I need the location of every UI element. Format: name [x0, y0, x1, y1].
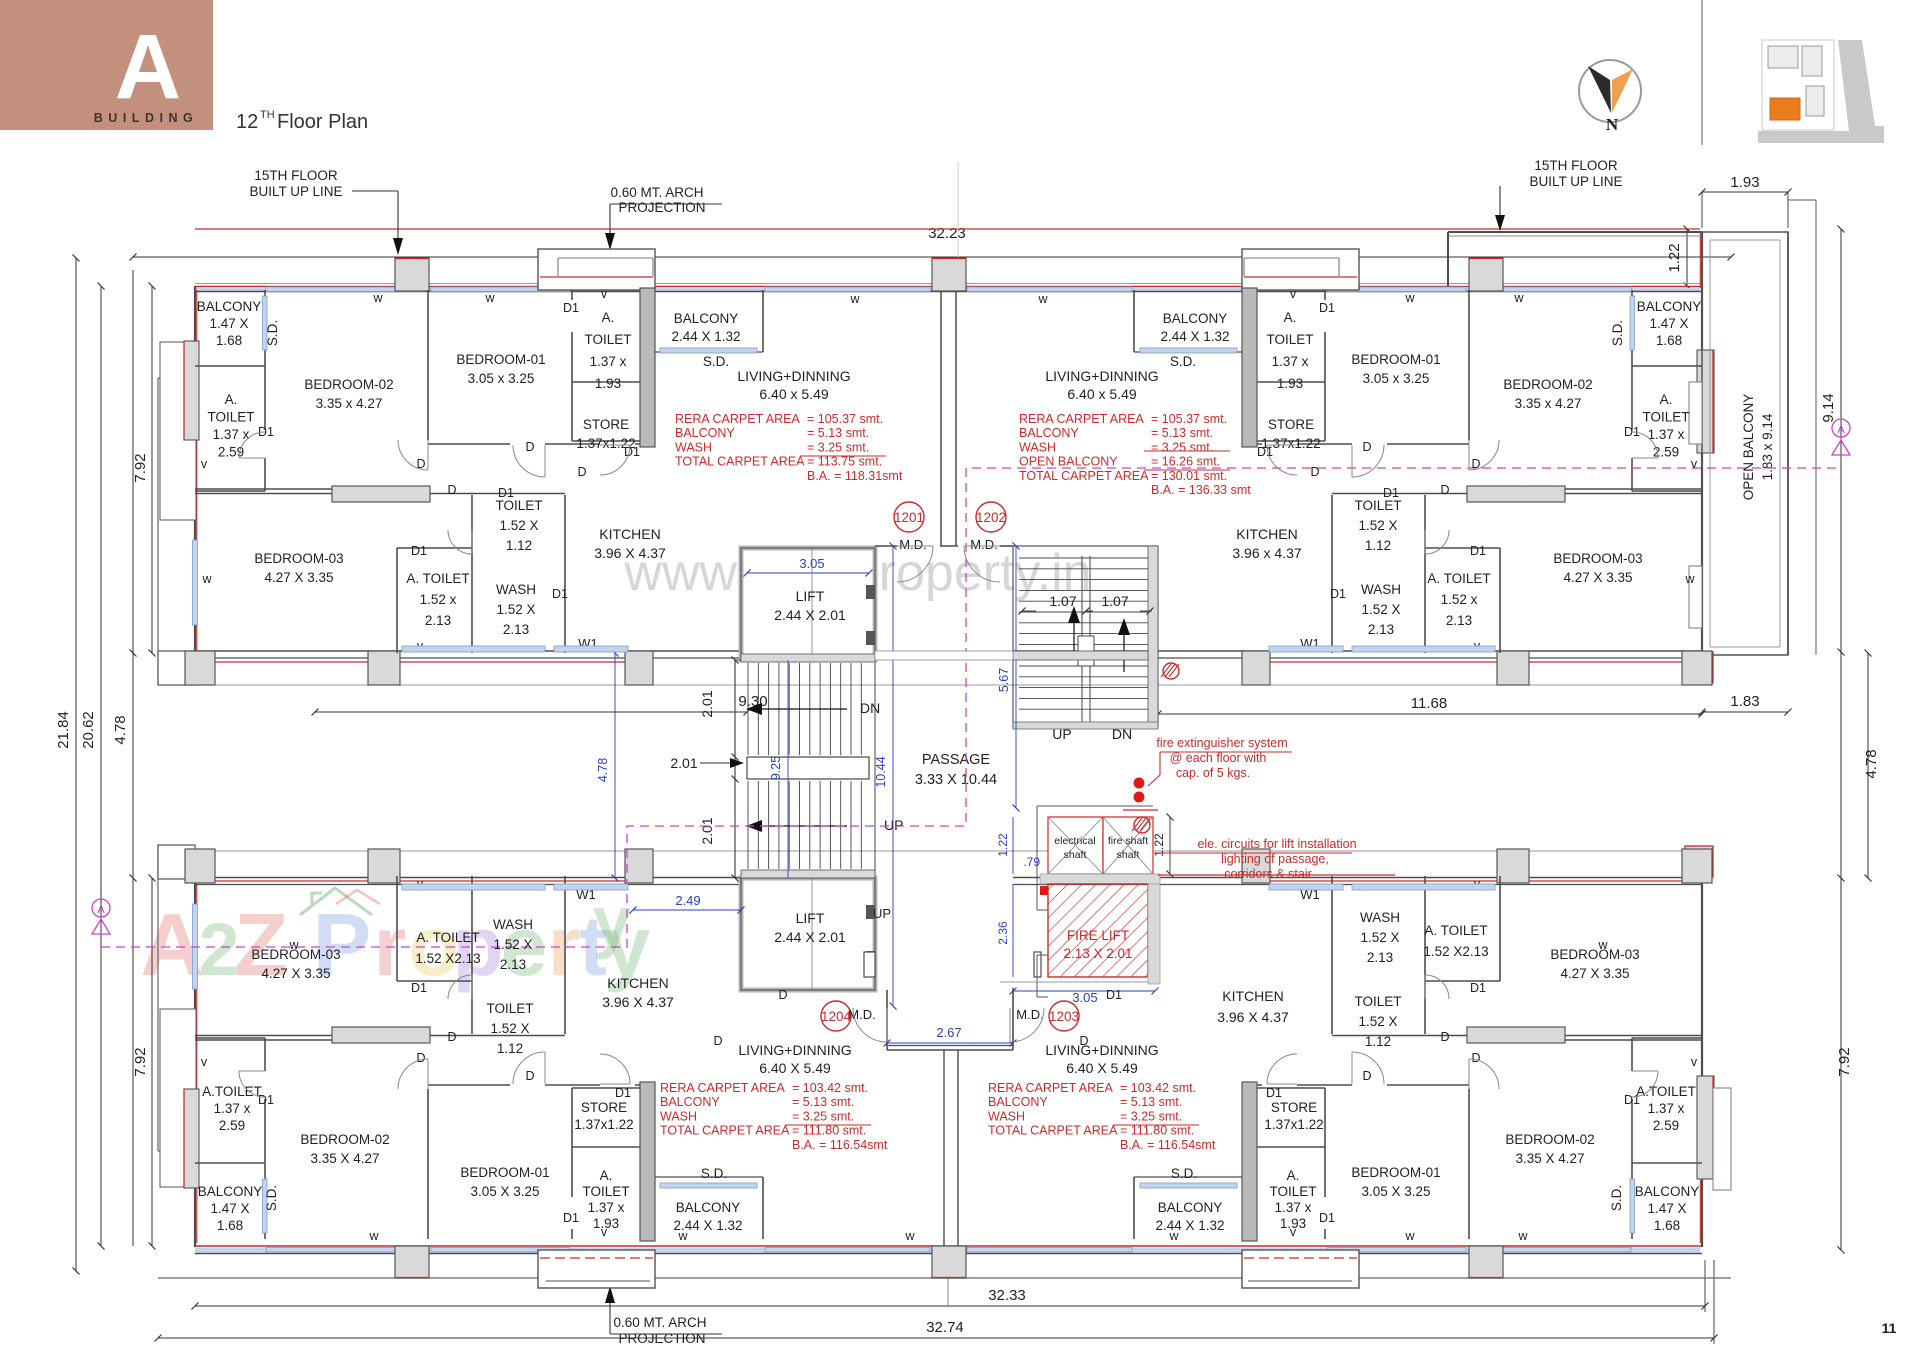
svg-text:WASH: WASH	[988, 1109, 1025, 1123]
open balcony corner column	[1685, 652, 1713, 683]
upper wing bottom wall	[195, 650, 875, 652]
svg-text:BEDROOM-01: BEDROOM-01	[1351, 352, 1440, 367]
wing window strips W1	[402, 646, 545, 652]
svg-text:1.12: 1.12	[506, 538, 532, 553]
svg-text:D1: D1	[552, 587, 568, 601]
svg-text:KITCHEN: KITCHEN	[607, 975, 668, 991]
svg-text:1.37x1.22: 1.37x1.22	[1264, 1117, 1323, 1132]
north compass	[1579, 60, 1641, 122]
passage landing strip upper	[1013, 651, 1148, 660]
svg-text:w: w	[677, 1229, 688, 1243]
svg-text:r: r	[374, 899, 407, 993]
svg-text:3.35 X 4.27: 3.35 X 4.27	[1515, 1151, 1584, 1166]
door arc a-toilet left	[239, 432, 265, 458]
svg-text:3.05: 3.05	[1072, 990, 1097, 1005]
svg-text:ele. circuits for lift install: ele. circuits for lift installation	[1197, 837, 1356, 851]
dim left 7.92 lower	[151, 878, 153, 1246]
svg-text:D: D	[1471, 1051, 1480, 1065]
blue dim 3.05 upper lift	[747, 572, 869, 574]
columns top wall	[395, 258, 429, 291]
svg-text:9.25: 9.25	[769, 756, 783, 780]
svg-text:TOTAL CARPET AREA: TOTAL CARPET AREA	[675, 455, 805, 469]
svg-text:BEDROOM-02: BEDROOM-02	[1503, 377, 1592, 392]
right stair bottom band	[1013, 722, 1158, 729]
svg-text:6.40 x 5.49: 6.40 x 5.49	[759, 386, 828, 402]
svg-text:32.23: 32.23	[928, 225, 966, 242]
party wall between units vertical	[940, 291, 942, 546]
svg-text:7.92: 7.92	[1836, 1047, 1853, 1076]
svg-text:A.TOILET: A.TOILET	[1636, 1084, 1696, 1099]
svg-text:BALCONY: BALCONY	[1158, 1200, 1223, 1215]
svg-text:TH: TH	[260, 109, 275, 121]
svg-text:2.59: 2.59	[219, 1118, 245, 1133]
svg-text:1.37 x: 1.37 x	[214, 1101, 251, 1116]
open balcony right strip	[1702, 232, 1788, 655]
dim left 7.92 upper	[151, 286, 153, 653]
svg-text:= 103.42 smt.: = 103.42 smt.	[792, 1081, 868, 1095]
svg-text:OPEN BALCONY: OPEN BALCONY	[1741, 394, 1756, 501]
svg-text:TOTAL CARPET AREA: TOTAL CARPET AREA	[1019, 469, 1149, 483]
svg-text:BALCONY: BALCONY	[660, 1095, 720, 1109]
svg-text:3.33 X 10.44: 3.33 X 10.44	[915, 772, 997, 788]
svg-text:4.27 X 3.35: 4.27 X 3.35	[261, 966, 330, 981]
svg-text:S.D.: S.D.	[1610, 320, 1625, 346]
top wall windows	[266, 287, 425, 292]
fire extinguisher dots	[1134, 778, 1145, 789]
svg-text:21.84: 21.84	[55, 711, 72, 749]
svg-text:20.62: 20.62	[80, 711, 97, 749]
svg-text:BALCONY: BALCONY	[674, 311, 739, 326]
svg-text:= 5.13 smt.: = 5.13 smt.	[792, 1095, 854, 1109]
shaft bottom gray band	[1040, 874, 1160, 884]
svg-text:12: 12	[236, 111, 258, 133]
svg-text:S.D.: S.D.	[1170, 354, 1196, 369]
dim 11.68	[1158, 713, 1702, 715]
svg-text:= 3.25 smt.: = 3.25 smt.	[807, 440, 869, 454]
svg-text:3.35 x 4.27: 3.35 x 4.27	[1515, 396, 1582, 411]
svg-text:1.52 X: 1.52 X	[490, 1021, 529, 1036]
svg-text:v: v	[1290, 1225, 1297, 1239]
svg-text:.79: .79	[1023, 855, 1040, 869]
svg-text:32.33: 32.33	[988, 1287, 1026, 1304]
svg-text:4.78: 4.78	[596, 758, 610, 782]
svg-text:RERA CARPET AREA: RERA CARPET AREA	[988, 1081, 1113, 1095]
svg-text:D: D	[713, 1034, 722, 1048]
svg-text:= 5.13 smt.: = 5.13 smt.	[1120, 1095, 1182, 1109]
upper lift door stubs	[866, 585, 875, 599]
svg-text:fire shaft: fire shaft	[1108, 835, 1148, 847]
svg-text:BALCONY: BALCONY	[198, 1184, 263, 1199]
svg-text:D: D	[447, 1030, 456, 1044]
door arc MD unit bottom	[853, 1008, 887, 1042]
svg-text:D: D	[525, 440, 534, 454]
dim right 9.14	[1840, 229, 1842, 1250]
svg-text:1.52 X: 1.52 X	[1358, 518, 1397, 533]
svg-text:A.: A.	[225, 392, 238, 407]
svg-text:= 105.37 smt.: = 105.37 smt.	[807, 412, 883, 426]
svg-text:D: D	[1362, 1069, 1371, 1083]
svg-text:2.49: 2.49	[675, 893, 700, 908]
blue dim 2.36	[1012, 884, 1014, 977]
svg-text:STORE: STORE	[581, 1100, 627, 1115]
svg-text:D: D	[778, 988, 787, 1002]
svg-text:v: v	[1290, 287, 1297, 301]
svg-text:= 5.13 smt.: = 5.13 smt.	[807, 426, 869, 440]
svg-text:w: w	[1168, 1229, 1179, 1243]
svg-text:1.37 x: 1.37 x	[588, 1200, 625, 1215]
dim 9.30	[315, 711, 747, 713]
svg-text:v: v	[1691, 457, 1698, 471]
section marker A left	[92, 899, 110, 917]
svg-text:fire extinguisher system: fire extinguisher system	[1156, 736, 1287, 750]
right wall pilasters	[1689, 382, 1702, 444]
red mark left of fire lift	[1040, 886, 1048, 895]
svg-text:1.47 X: 1.47 X	[1647, 1201, 1686, 1216]
site location mini map	[1762, 40, 1834, 130]
shaft area outline	[1036, 806, 1038, 910]
svg-text:= 130.01 smt.: = 130.01 smt.	[1151, 469, 1227, 483]
svg-text:3.05 X 3.25: 3.05 X 3.25	[470, 1184, 539, 1199]
svg-text:3.96 X 4.37: 3.96 X 4.37	[594, 545, 666, 561]
arch projection bottom right	[1242, 1250, 1359, 1288]
svg-text:4.78: 4.78	[112, 715, 129, 744]
svg-text:1.52 X: 1.52 X	[1358, 1014, 1397, 1029]
svg-text:WASH: WASH	[1361, 582, 1401, 597]
svg-text:shaft: shaft	[1064, 849, 1087, 861]
svg-text:@ each floor with: @ each floor with	[1170, 751, 1267, 765]
svg-text:1.37 x: 1.37 x	[1275, 1200, 1312, 1215]
svg-text:2.44 X 2.01: 2.44 X 2.01	[774, 929, 846, 945]
svg-text:D1: D1	[1383, 486, 1399, 500]
stair left treads lower flight	[747, 781, 749, 869]
svg-text:D1: D1	[1319, 301, 1335, 315]
svg-text:1.68: 1.68	[217, 1218, 243, 1233]
left outer wall	[194, 286, 196, 653]
svg-text:1.12: 1.12	[1365, 1034, 1391, 1049]
svg-text:w: w	[1684, 572, 1695, 586]
svg-text:RERA CARPET AREA: RERA CARPET AREA	[660, 1081, 785, 1095]
blue dim 10.44	[892, 546, 894, 1006]
svg-text:1.37 x: 1.37 x	[1272, 354, 1309, 369]
svg-text:D: D	[416, 1051, 425, 1065]
svg-text:PROJECTION: PROJECTION	[618, 1331, 705, 1346]
door arc store	[600, 445, 630, 475]
watermark house icon	[300, 888, 372, 915]
svg-text:TOILET: TOILET	[486, 1001, 533, 1016]
svg-text:11: 11	[1882, 1320, 1897, 1336]
red wall line right of fire area	[1158, 874, 1395, 876]
svg-text:D: D	[525, 1069, 534, 1083]
svg-text:WASH: WASH	[660, 1109, 697, 1123]
svg-text:1.47 X: 1.47 X	[1649, 316, 1688, 331]
svg-text:TOILET: TOILET	[584, 332, 631, 347]
svg-text:4.78: 4.78	[1863, 749, 1880, 778]
arch projection bottom left	[538, 1250, 655, 1288]
svg-text:2.59: 2.59	[1653, 1118, 1679, 1133]
svg-text:BALCONY: BALCONY	[1637, 299, 1702, 314]
svg-text:A.: A.	[602, 310, 615, 325]
svg-text:1.68: 1.68	[1656, 333, 1682, 348]
svg-text:1.37 x: 1.37 x	[1648, 1101, 1685, 1116]
svg-text:2.13: 2.13	[500, 957, 526, 972]
svg-text:D1: D1	[615, 1086, 631, 1100]
bedroom-02/01 divider wall	[427, 290, 429, 440]
bedroom-01 dark slab	[640, 288, 655, 447]
right stair treads	[1019, 557, 1148, 559]
stair UP arrow	[758, 825, 847, 827]
svg-text:1.52 X: 1.52 X	[493, 937, 532, 952]
left outcrop outline upper	[157, 378, 159, 685]
svg-text:BALCONY: BALCONY	[1635, 1184, 1700, 1199]
svg-text:3.05 X 3.25: 3.05 X 3.25	[1361, 1184, 1430, 1199]
svg-text:DN: DN	[1112, 726, 1132, 742]
svg-text:1203: 1203	[1049, 1009, 1079, 1024]
bedroom-02 bottom slab	[332, 486, 430, 502]
svg-text:w: w	[484, 291, 495, 305]
svg-text:= 113.75 smt.: = 113.75 smt.	[807, 455, 882, 469]
svg-text:w: w	[288, 938, 299, 952]
svg-text:UP: UP	[884, 817, 903, 833]
svg-text:D1: D1	[411, 981, 427, 995]
right stair arrows up	[1073, 620, 1075, 660]
top outer wall band	[195, 283, 1702, 285]
svg-text:A.: A.	[1660, 392, 1673, 407]
svg-text:WASH: WASH	[496, 582, 536, 597]
svg-text:w: w	[368, 1229, 379, 1243]
svg-text:A. TOILET: A. TOILET	[416, 930, 479, 945]
svg-text:1.93: 1.93	[595, 376, 621, 391]
svg-text:D1: D1	[624, 445, 640, 459]
balcony SD window strips vertical	[263, 296, 268, 350]
svg-text:cap. of 5 kgs.: cap. of 5 kgs.	[1176, 766, 1250, 780]
svg-text:PASSAGE: PASSAGE	[922, 752, 991, 768]
svg-text:4.27 X 3.35: 4.27 X 3.35	[264, 570, 333, 585]
svg-text:11.68: 11.68	[1411, 695, 1447, 712]
svg-text:A: A	[115, 16, 181, 118]
svg-text:10.44: 10.44	[874, 756, 888, 787]
svg-text:WASH: WASH	[675, 440, 712, 454]
columns bottom wall	[395, 1246, 429, 1278]
svg-text:D1: D1	[1470, 981, 1486, 995]
svg-text:v: v	[601, 1225, 608, 1239]
svg-text:2.59: 2.59	[1653, 445, 1679, 460]
svg-text:3.35 x 4.27: 3.35 x 4.27	[316, 396, 383, 411]
svg-text:1.68: 1.68	[216, 333, 242, 348]
svg-text:Floor Plan: Floor Plan	[277, 111, 368, 133]
svg-text:1.12: 1.12	[497, 1041, 523, 1056]
svg-text:1.83: 1.83	[1730, 693, 1759, 710]
svg-text:D: D	[1362, 440, 1371, 454]
svg-text:0.60 MT. ARCH: 0.60 MT. ARCH	[610, 185, 703, 200]
unit 1204 circle	[821, 1001, 851, 1031]
svg-text:S.D.: S.D.	[1171, 1166, 1197, 1181]
svg-text:1202: 1202	[976, 510, 1006, 525]
magenta section line left	[101, 468, 1841, 947]
svg-text:A. TOILET: A. TOILET	[1424, 923, 1487, 938]
svg-text:BEDROOM-01: BEDROOM-01	[1351, 1165, 1440, 1180]
svg-text:1.22: 1.22	[1666, 243, 1683, 272]
svg-text:D: D	[1079, 1034, 1088, 1048]
svg-text:1.68: 1.68	[1654, 1218, 1680, 1233]
svg-text:32.74: 32.74	[926, 1319, 964, 1336]
svg-text:= 105.37 smt.: = 105.37 smt.	[1151, 412, 1227, 426]
bottom outer wall band	[195, 1245, 1702, 1247]
header divider	[1701, 0, 1703, 145]
svg-text:1.52 X: 1.52 X	[1361, 602, 1400, 617]
svg-text:w: w	[1404, 1229, 1415, 1243]
svg-text:M.D.: M.D.	[970, 537, 997, 552]
svg-text:2.44 X 1.32: 2.44 X 1.32	[1155, 1218, 1224, 1233]
svg-text:D: D	[1440, 1030, 1449, 1044]
svg-text:1.37 x: 1.37 x	[213, 427, 250, 442]
svg-text:D1: D1	[1266, 1086, 1282, 1100]
svg-text:TOILET: TOILET	[1269, 1184, 1316, 1199]
svg-text:WASH: WASH	[1360, 910, 1400, 925]
svg-text:S.D.: S.D.	[1609, 1185, 1624, 1211]
svg-text:2.13: 2.13	[425, 613, 451, 628]
svg-text:15TH FLOOR: 15TH FLOOR	[1534, 158, 1618, 173]
right wall duct slab lower	[1697, 1076, 1714, 1179]
svg-text:1.37 x: 1.37 x	[1648, 427, 1685, 442]
unit 1201 circle	[894, 502, 924, 532]
dim right 1.22	[1686, 229, 1688, 286]
svg-text:D1: D1	[498, 486, 514, 500]
dim left 20.62	[100, 286, 102, 1246]
svg-text:BEDROOM-02: BEDROOM-02	[1505, 1132, 1594, 1147]
svg-text:= 3.25 smt.: = 3.25 smt.	[1120, 1109, 1182, 1123]
electrical shaft	[1048, 817, 1103, 874]
dim left 21.84	[75, 258, 77, 1271]
svg-text:2.01: 2.01	[699, 690, 715, 717]
svg-text:A.: A.	[1284, 310, 1297, 325]
svg-text:A.: A.	[1287, 1168, 1300, 1183]
svg-text:7.92: 7.92	[132, 453, 149, 482]
svg-text:2.44 X 1.32: 2.44 X 1.32	[671, 329, 740, 344]
svg-text:BALCONY: BALCONY	[197, 299, 262, 314]
right stair block	[1013, 546, 1158, 728]
bedroom-01 bottom wall	[428, 443, 510, 445]
svg-text:v: v	[1691, 1055, 1698, 1069]
svg-text:D1: D1	[411, 544, 427, 558]
dim bottom 32.33	[195, 1305, 1705, 1307]
svg-text:2.59: 2.59	[218, 445, 244, 460]
svg-text:BEDROOM-03: BEDROOM-03	[1553, 551, 1642, 566]
svg-text:6.40 x 5.49: 6.40 x 5.49	[1067, 386, 1136, 402]
door arc bedroom-02	[398, 440, 428, 470]
svg-text:3.96 X 4.37: 3.96 X 4.37	[1217, 1009, 1289, 1025]
svg-text:2.01: 2.01	[670, 755, 697, 771]
svg-text:2.44 X 2.01: 2.44 X 2.01	[774, 607, 846, 623]
svg-text:4.27 X 3.35: 4.27 X 3.35	[1560, 966, 1629, 981]
svg-text:D1: D1	[1106, 988, 1122, 1002]
svg-text:15TH FLOOR: 15TH FLOOR	[254, 168, 338, 183]
svg-text:KITCHEN: KITCHEN	[599, 526, 660, 542]
svg-text:TOILET: TOILET	[1266, 332, 1313, 347]
svg-text:RERA CARPET AREA: RERA CARPET AREA	[1019, 412, 1144, 426]
svg-text:B.A. = 116.54smt: B.A. = 116.54smt	[1120, 1138, 1216, 1152]
svg-text:w: w	[201, 572, 212, 586]
svg-text:w: w	[372, 291, 383, 305]
svg-text:STORE: STORE	[583, 417, 629, 432]
svg-text:BALCONY: BALCONY	[676, 1200, 741, 1215]
svg-text:UP: UP	[873, 906, 891, 921]
svg-text:D: D	[577, 465, 586, 479]
svg-text:1.52 x: 1.52 x	[420, 592, 457, 607]
right outer wall	[1701, 232, 1703, 655]
svg-text:1.12: 1.12	[1365, 538, 1391, 553]
svg-text:A.: A.	[600, 1168, 613, 1183]
svg-text:2.67: 2.67	[936, 1025, 961, 1040]
svg-text:D1: D1	[1319, 1211, 1335, 1225]
svg-text:= 111.80 smt.: = 111.80 smt.	[1120, 1124, 1194, 1138]
svg-text:WASH: WASH	[493, 917, 533, 932]
svg-text:LIFT: LIFT	[796, 588, 825, 604]
right stair rail	[1081, 556, 1083, 726]
center guide line bottom	[947, 1278, 949, 1306]
svg-text:2.13: 2.13	[503, 622, 529, 637]
left wall window bedroom03	[193, 540, 198, 625]
svg-text:1.37x1.22: 1.37x1.22	[574, 1117, 633, 1132]
svg-text:w: w	[849, 292, 860, 306]
svg-text:4.27 X 3.35: 4.27 X 3.35	[1563, 570, 1632, 585]
arch projection top right	[1242, 249, 1359, 290]
unit 1203 circle	[1049, 1001, 1079, 1031]
door arc bedroom-01	[513, 445, 545, 477]
svg-text:BUILT UP LINE: BUILT UP LINE	[1529, 174, 1622, 189]
toilet wash cluster walls	[396, 548, 398, 653]
svg-text:1.47 X: 1.47 X	[210, 1201, 249, 1216]
stair left treads upper flight	[747, 663, 749, 755]
stair left landing	[747, 757, 869, 779]
svg-text:6.40 X 5.49: 6.40 X 5.49	[1066, 1060, 1138, 1076]
svg-text:S.D.: S.D.	[265, 320, 280, 346]
svg-text:LIVING+DINNING: LIVING+DINNING	[737, 368, 850, 384]
blue dim 9.25	[787, 660, 789, 878]
blue dim 3.05 fire lift	[1013, 990, 1155, 992]
svg-text:B.A. = 118.31smt: B.A. = 118.31smt	[807, 469, 903, 483]
svg-text:TOILET: TOILET	[582, 1184, 629, 1199]
svg-text:= 111.80 smt.: = 111.80 smt.	[792, 1124, 866, 1138]
svg-text:1.83 x 9.14: 1.83 x 9.14	[1760, 413, 1775, 480]
svg-text:= 103.42 smt.: = 103.42 smt.	[1120, 1081, 1196, 1095]
svg-text:D1: D1	[258, 1093, 274, 1107]
blue dim 5.67	[1015, 546, 1017, 808]
svg-text:TOTAL CARPET AREA: TOTAL CARPET AREA	[660, 1124, 790, 1138]
svg-text:1201: 1201	[894, 510, 924, 525]
lower lift	[741, 878, 875, 990]
svg-text:PROJECTION: PROJECTION	[618, 200, 705, 215]
dim 1.22 right of shaft	[1169, 817, 1171, 874]
svg-text:1.52 X: 1.52 X	[496, 602, 535, 617]
svg-text:UP: UP	[1052, 726, 1071, 742]
svg-text:TOILET: TOILET	[1354, 498, 1401, 513]
svg-text:BEDROOM-03: BEDROOM-03	[254, 551, 343, 566]
svg-text:1.52 X: 1.52 X	[499, 518, 538, 533]
svg-text:M.D.: M.D.	[899, 537, 926, 552]
svg-text:D1: D1	[563, 301, 579, 315]
svg-text:3.35 X 4.27: 3.35 X 4.27	[310, 1151, 379, 1166]
svg-text:STORE: STORE	[1268, 417, 1314, 432]
svg-text:2.13 X 2.01: 2.13 X 2.01	[1063, 946, 1132, 961]
bottom wall windows	[266, 1248, 425, 1253]
svg-text:D1: D1	[1624, 1093, 1640, 1107]
svg-text:3.96 X 4.37: 3.96 X 4.37	[602, 994, 674, 1010]
svg-text:7.92: 7.92	[132, 1047, 149, 1076]
dim right 4.78	[1867, 653, 1869, 878]
blue dim 2.67	[887, 1042, 1013, 1044]
svg-text:2.13: 2.13	[1367, 950, 1393, 965]
svg-text:lighting of passage,: lighting of passage,	[1221, 852, 1329, 866]
